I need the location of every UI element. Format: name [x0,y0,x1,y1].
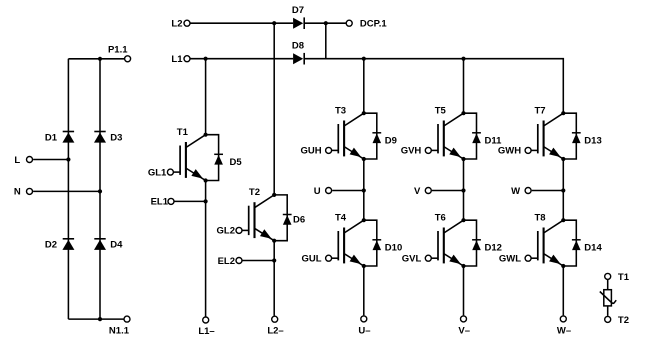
svg-text:T3: T3 [335,105,346,116]
svg-text:EL2: EL2 [218,256,235,267]
svg-text:D7: D7 [292,5,304,16]
svg-text:D4: D4 [110,240,123,251]
svg-text:D6: D6 [293,214,305,225]
svg-text:GWL: GWL [499,254,521,265]
svg-text:D13: D13 [584,136,601,147]
svg-text:T6: T6 [435,212,446,223]
svg-text:GL2: GL2 [217,226,235,237]
svg-text:T1: T1 [177,127,189,138]
svg-text:D8: D8 [292,40,304,51]
svg-text:D14: D14 [584,243,602,254]
svg-text:GUH: GUH [300,146,321,157]
svg-text:D10: D10 [385,243,402,254]
svg-text:GVL: GVL [402,254,422,265]
svg-text:T2: T2 [249,187,260,198]
svg-text:EL1: EL1 [151,197,169,208]
svg-text:D5: D5 [230,157,243,168]
svg-text:L: L [14,155,20,166]
svg-text:GVH: GVH [401,146,422,157]
svg-text:D12: D12 [485,243,502,254]
svg-text:U: U [314,186,321,197]
svg-text:T2: T2 [618,315,629,326]
svg-text:L1–: L1– [198,326,214,337]
svg-text:L2–: L2– [267,326,283,337]
svg-text:GWH: GWH [498,146,521,157]
svg-text:DCP.1: DCP.1 [360,19,387,30]
svg-text:W–: W– [557,326,571,337]
svg-text:U–: U– [358,326,370,337]
svg-text:N: N [14,187,21,198]
svg-text:T7: T7 [535,105,546,116]
svg-text:T4: T4 [335,212,347,223]
svg-text:D1: D1 [45,132,58,143]
svg-text:D3: D3 [110,132,122,143]
svg-text:GL1: GL1 [148,167,167,178]
svg-text:D2: D2 [45,240,57,251]
svg-text:D9: D9 [385,136,397,147]
svg-text:T1: T1 [618,272,630,283]
svg-text:W: W [511,186,520,197]
svg-text:N1.1: N1.1 [109,326,130,337]
svg-text:V: V [414,186,421,197]
svg-text:T8: T8 [535,212,546,223]
svg-text:T5: T5 [435,105,447,116]
svg-text:L1: L1 [171,54,183,65]
svg-text:P1.1: P1.1 [108,44,128,55]
svg-text:GUL: GUL [302,254,322,265]
svg-text:V–: V– [458,326,470,337]
svg-text:L2: L2 [171,18,182,29]
